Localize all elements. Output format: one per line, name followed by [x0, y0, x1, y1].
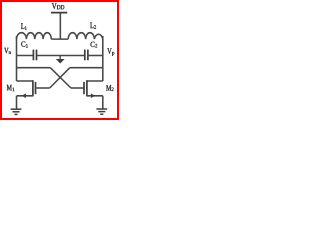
wire left vertical node Vn	[16, 36, 18, 81]
inductor L2	[68, 33, 103, 39]
transistor M1 gate bar	[35, 82, 37, 94]
label M1-1	[13, 88, 15, 92]
ground left	[11, 108, 22, 110]
label VDD-D2	[61, 5, 65, 9]
border frame	[1, 1, 118, 119]
label M2-2	[112, 87, 114, 91]
arrowhead M2 source	[91, 94, 95, 99]
label L2-2	[94, 25, 96, 29]
label L2-L	[90, 23, 93, 29]
wire cross-couple top right	[70, 67, 103, 69]
arrowhead M1 source	[22, 94, 26, 99]
wire C1 to C2	[37, 55, 85, 57]
wire diagonal to M2 gate	[50, 68, 71, 88]
wire top center	[51, 38, 68, 40]
wire M1 gate lead	[36, 87, 50, 89]
transistor M2 gate bar	[83, 82, 85, 94]
wire cross-couple top left	[17, 67, 51, 69]
wire Vn to C1	[17, 55, 34, 57]
arrow center tap shaft	[60, 56, 61, 60]
label L1-L	[21, 23, 24, 29]
wire M1 source lead	[17, 95, 33, 97]
supply VDD T-bar	[51, 12, 67, 14]
label Vp-V	[107, 48, 111, 53]
ground right	[96, 108, 107, 110]
label Vp-p	[112, 52, 114, 56]
label Vn-n	[9, 51, 11, 54]
label M1-M	[7, 85, 12, 90]
wire M2 source down	[102, 96, 104, 109]
arrow center tap head	[56, 59, 65, 64]
label L1-1	[25, 26, 27, 30]
capacitor C1	[32, 50, 34, 61]
transistor M1 channel bar	[32, 80, 34, 96]
label C1-1	[26, 44, 28, 48]
label VDD-V	[52, 3, 57, 9]
label Vn-V	[4, 48, 8, 53]
wire right vertical node Vp	[102, 36, 104, 81]
wire M2 source lead	[87, 95, 103, 97]
capacitor C2	[84, 50, 86, 61]
wire M1 source down	[16, 96, 18, 109]
inductor L1	[17, 33, 52, 39]
transistor M2 channel bar	[86, 80, 88, 96]
label C2-C	[91, 42, 95, 47]
wire C2 to Vp	[88, 55, 103, 57]
label C2-2	[95, 44, 97, 48]
wire VDD vertical	[59, 13, 61, 39]
wire M1 drain rail	[17, 80, 33, 82]
label VDD-D1	[57, 5, 61, 9]
labels	[4, 3, 114, 91]
wire M2 drain rail	[87, 80, 103, 82]
wire diagonal to M1 gate	[50, 68, 70, 88]
wire M2 gate lead	[71, 87, 84, 89]
label M2-M	[106, 85, 111, 91]
label C1-C	[21, 42, 25, 47]
